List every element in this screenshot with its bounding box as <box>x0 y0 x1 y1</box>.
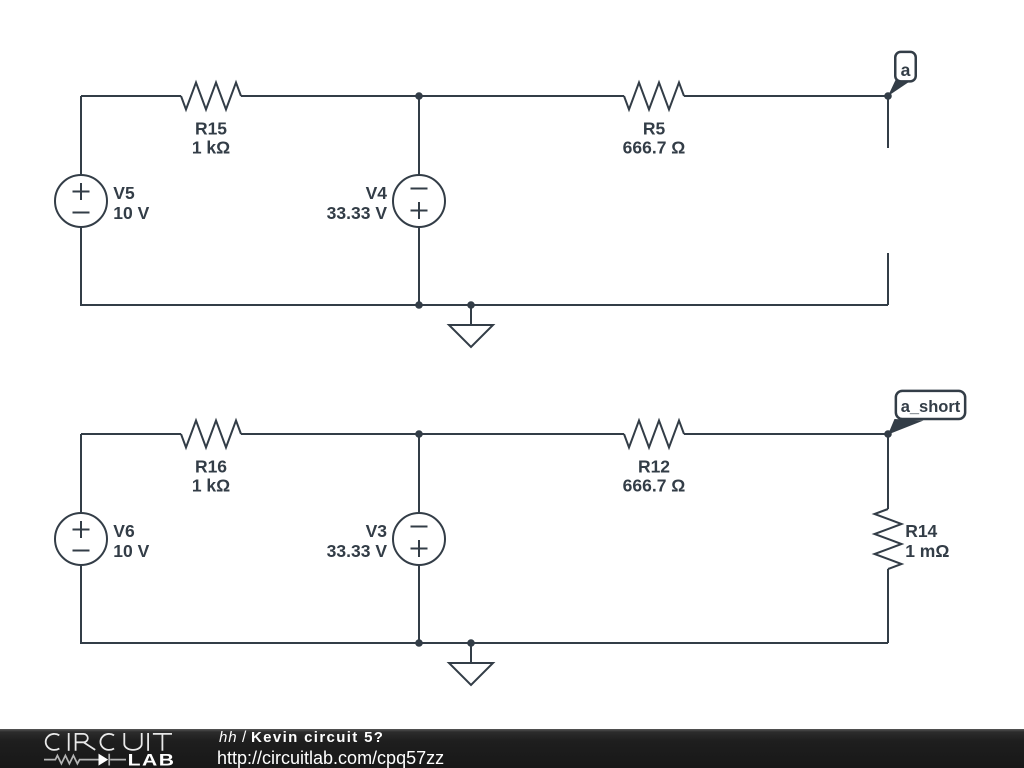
svg-text:LAB: LAB <box>128 751 176 768</box>
svg-text:R5: R5 <box>643 118 666 138</box>
svg-text:1 mΩ: 1 mΩ <box>905 541 949 561</box>
svg-text:R12: R12 <box>638 456 670 476</box>
svg-text:R15: R15 <box>195 118 227 138</box>
svg-text:V5: V5 <box>113 183 135 203</box>
svg-text:1 kΩ: 1 kΩ <box>192 476 230 496</box>
svg-text:V4: V4 <box>366 183 388 203</box>
svg-text:33.33 V: 33.33 V <box>327 541 388 561</box>
svg-text:10 V: 10 V <box>113 541 149 561</box>
svg-text:R16: R16 <box>195 456 227 476</box>
svg-text:10 V: 10 V <box>113 203 149 223</box>
svg-text:33.33 V: 33.33 V <box>327 203 388 223</box>
svg-text:a: a <box>901 60 911 80</box>
svg-text:a_short: a_short <box>901 398 961 416</box>
svg-text:666.7 Ω: 666.7 Ω <box>623 476 686 496</box>
svg-text:666.7 Ω: 666.7 Ω <box>623 138 686 158</box>
svg-text:V3: V3 <box>366 521 388 541</box>
svg-text:V6: V6 <box>113 521 135 541</box>
svg-text:1 kΩ: 1 kΩ <box>192 138 230 158</box>
svg-text:R14: R14 <box>905 521 937 541</box>
